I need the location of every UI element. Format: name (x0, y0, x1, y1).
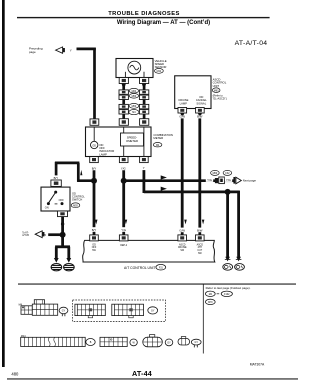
svg-text:LAMP: LAMP (180, 101, 188, 105)
pin name ASCD 4th cut sw (197, 243, 204, 254)
svg-text:Refer to last page (Foldout pa: Refer to last page (Foldout page). (206, 286, 251, 290)
svg-text:CRUISE: CRUISE (178, 247, 187, 249)
svg-text:TROUBLE DIAGNOSES: TROUBLE DIAGNOSES (108, 11, 180, 17)
next page arrow (233, 177, 241, 184)
foldout dashed box (73, 300, 166, 322)
svg-text:B/Y: B/Y (92, 228, 97, 232)
connector id oval ASCD (212, 88, 220, 93)
ground arrowhead right (66, 258, 71, 263)
svg-text:ON: ON (45, 206, 49, 210)
vehicle speed sensor box (116, 59, 153, 78)
svg-text:To AT-: To AT- (22, 231, 29, 234)
sensor terminal 1 (119, 78, 128, 87)
svg-text:B/Y: B/Y (92, 166, 97, 170)
wire B/W vertical (198, 118, 201, 235)
meter bottom terminal 2 (119, 157, 128, 163)
section separator rule (18, 284, 296, 285)
svg-text:AT-44: AT-44 (132, 369, 152, 378)
svg-text:F31: F31 (159, 267, 164, 269)
ATCU terminal ASCD cruise (178, 235, 187, 241)
ASCD terminal cruise lamp (178, 108, 187, 116)
branch1 end terminal (225, 257, 231, 262)
speedometer box (121, 133, 144, 146)
svg-text:GY: GY (194, 341, 198, 344)
page left black bar (2, 0, 5, 367)
svg-text:SWITCH: SWITCH (72, 197, 82, 201)
svg-text:ASCD: ASCD (197, 243, 204, 246)
svg-text:OD: OD (92, 243, 96, 246)
svg-text:B/Y: B/Y (54, 176, 59, 180)
wire jog riser (77, 163, 80, 182)
junction dot Y/G (121, 178, 127, 184)
svg-text:M24: M24 (132, 90, 137, 93)
svg-text:OFF: OFF (92, 247, 97, 249)
svg-text:OD: OD (92, 144, 96, 147)
svg-text:“EL-ASCD”.): “EL-ASCD”.) (213, 97, 228, 101)
switch OFF contact (61, 202, 64, 205)
arrow up on riser (80, 170, 82, 175)
arrow down on Y/G wire (125, 220, 128, 225)
connector id ovals row2 (129, 104, 139, 115)
svg-text:OMETER: OMETER (126, 139, 138, 143)
svg-text:M24: M24 (157, 71, 162, 73)
branch2 end terminal (236, 257, 242, 262)
connector id M4 oval (153, 143, 162, 147)
svg-text:METER: METER (153, 136, 163, 140)
arrow down on G/W wire (184, 220, 187, 225)
to AT label (22, 231, 29, 237)
svg-text:OFF: OFF (59, 198, 65, 202)
wire Y/G vertical (122, 170, 125, 235)
ASCD control unit label (213, 78, 227, 88)
wire label G/W bottom (178, 228, 186, 233)
AT control unit box (83, 240, 215, 262)
connector M63 face (143, 335, 163, 347)
connector M4 color oval GY (59, 307, 68, 316)
meter top terminal 2 (119, 119, 128, 126)
wire G/W vertical (181, 118, 184, 235)
wire label Y/G bottom (120, 227, 128, 232)
ATCU terminal DEP-2 (119, 235, 128, 241)
junction dot bus2 (225, 189, 231, 195)
svg-text:M63: M63 (214, 89, 219, 92)
refer to EL-ASCD note (213, 94, 228, 101)
note dash (217, 293, 220, 295)
connector color oval B2 (165, 339, 173, 346)
svg-text:M60: M60 (132, 105, 137, 108)
meter inner wire speedo out (123, 146, 125, 157)
OD OFF indicator lamp (91, 141, 98, 148)
ATCU terminal OD OFF SW (90, 235, 99, 241)
svg-text:Y: Y (143, 166, 145, 170)
connector id M24 oval (155, 69, 164, 74)
pin name ASCD cruise sw (178, 243, 187, 252)
wire sensor left (122, 84, 125, 120)
svg-text:B/W: B/W (197, 115, 203, 119)
wire to AT arrow (48, 233, 62, 236)
connector color oval W (148, 307, 158, 314)
inline connector row1 right (139, 90, 148, 100)
ATCU terminal ASCD 4th cut (196, 235, 205, 241)
footer rule (7, 378, 298, 379)
inline connector on bus1 (215, 177, 225, 184)
junction dot B/Y (91, 178, 97, 184)
arrow down on B/Y wire (95, 220, 98, 225)
meter bottom terminal 3 (140, 157, 149, 163)
cruise lamp label (178, 98, 188, 105)
connector M24 strip face (21, 337, 86, 346)
OD control switch label (72, 191, 85, 201)
svg-text:GY: GY (167, 342, 171, 345)
switch bottom terminal (58, 211, 68, 217)
svg-text:M60: M60 (132, 95, 137, 98)
ground arrowhead left (54, 258, 59, 263)
meter top terminal 1 (90, 119, 99, 125)
connector color oval W2 (130, 339, 137, 346)
arrow down on B/W wire (202, 220, 205, 225)
switch ON contact (47, 202, 50, 205)
svg-text:B/W: B/W (197, 228, 203, 232)
inline connector row2 right (139, 104, 148, 114)
wire label Y/G left of connector (206, 177, 213, 182)
svg-text:GY: GY (151, 310, 155, 313)
wire jog horizontal low (77, 179, 94, 182)
sensor lead right (143, 72, 145, 78)
note oval M4 (205, 291, 215, 296)
connector id F31 oval (156, 264, 166, 270)
connector id M55 oval (71, 203, 80, 208)
note oval F102 (221, 291, 232, 296)
svg-text:UNIT: UNIT (213, 84, 220, 88)
svg-text:SIGNAL: SIGNAL (196, 101, 206, 105)
svg-text:Next page: Next page (243, 179, 257, 183)
wire jog horizontal top (55, 162, 79, 165)
svg-text:G/W: G/W (179, 115, 185, 119)
ground body left (51, 264, 62, 271)
branch2 connector oval (235, 264, 245, 271)
svg-text:Wiring Diagram — AT — (Cont’d): Wiring Diagram — AT — (Cont’d) (117, 20, 210, 26)
svg-text:F102: F102 (224, 294, 230, 296)
connector color oval B (86, 339, 95, 346)
inline connector row2 left (119, 104, 128, 114)
switch dash mark (55, 203, 58, 205)
combination meter label (153, 133, 173, 140)
wire Y feed horizontal (77, 48, 96, 51)
connector color oval GY2 (191, 339, 201, 347)
preceding page arrow (56, 47, 65, 53)
meter top terminal 3 (140, 119, 149, 126)
svg-text:M55: M55 (73, 204, 78, 207)
wire drop to OD switch (55, 162, 58, 176)
junction dot ground (60, 232, 66, 238)
header rule (17, 17, 270, 18)
wire label B/W bottom (196, 228, 204, 233)
wire B/Y vertical (93, 170, 96, 235)
switch lever (49, 192, 56, 203)
branch1 connector oval (223, 264, 233, 271)
note box border (202, 284, 204, 354)
svg-text:Y/G: Y/G (207, 178, 212, 182)
svg-text:MAT307A: MAT307A (250, 363, 265, 367)
meter bottom terminal 1 (90, 157, 99, 163)
connector M60 face (75, 304, 105, 318)
pin name OD OFF SW (92, 243, 97, 252)
vehicle speed sensor symbol (128, 61, 141, 74)
svg-text:ASCD: ASCD (179, 243, 186, 246)
wire right branch 1 (226, 192, 229, 257)
wire sensor right (143, 84, 146, 120)
switch pivot contact (54, 191, 57, 194)
svg-text:CUT: CUT (197, 250, 202, 252)
wire label B/Y bottom (90, 227, 98, 232)
inline connector row1 left (119, 90, 128, 100)
ground branch left (55, 247, 58, 259)
svg-text:A/T CONTROL UNIT: A/T CONTROL UNIT (124, 266, 155, 270)
ground body right (64, 264, 75, 271)
bus2 horizontal (144, 191, 240, 194)
wire Y feed vertical (93, 48, 96, 120)
svg-text:page: page (29, 50, 36, 54)
connector dot (61, 222, 64, 225)
ground branch right (67, 247, 70, 259)
bus1 tail to arrow (224, 179, 234, 182)
wire right branch 2 (237, 191, 240, 257)
svg-text:Y/G: Y/G (226, 178, 231, 182)
svg-text:M70: M70 (208, 302, 213, 304)
OD control switch box (41, 187, 70, 211)
bus Y/G to next page (124, 179, 216, 182)
meter inner wire right (143, 127, 145, 157)
svg-text:480: 480 (11, 372, 19, 377)
ground split bar (55, 245, 70, 248)
connector M4 face left block (21, 306, 32, 315)
svg-text:Y: Y (70, 49, 72, 53)
svg-text:G/W: G/W (179, 228, 185, 232)
switch top terminal (51, 180, 61, 186)
sensor lead left (124, 72, 126, 78)
to AT arrow (35, 231, 44, 238)
svg-text:A/T-05: A/T-05 (22, 234, 29, 237)
connector M55 face (100, 337, 127, 346)
OD OFF indicator lamp label (99, 143, 114, 156)
arrow right on bus1 (161, 175, 167, 179)
svg-text:M60: M60 (213, 172, 218, 175)
meter inner wire lamp (93, 127, 95, 141)
connector id ovals row1 (129, 88, 138, 98)
svg-text:DEP-2: DEP-2 (120, 245, 127, 247)
connector id ovals bus1 (211, 170, 232, 175)
connector M4 face right block (32, 300, 57, 316)
wire Y vertical from meter (142, 170, 145, 193)
wire switch ground (61, 217, 64, 247)
preceding page label (29, 47, 43, 55)
connector M70 face (112, 304, 144, 318)
arrow right on bus2 (161, 187, 167, 191)
svg-text:AT-A/T-04: AT-A/T-04 (235, 40, 268, 47)
svg-text:LAMP: LAMP (99, 152, 107, 156)
svg-text:4TH: 4TH (198, 247, 203, 249)
meter inner wire speedo in (123, 127, 125, 133)
OD cancel signal label (196, 95, 207, 105)
combination meter box (86, 127, 152, 157)
svg-text:GY: GY (62, 310, 66, 313)
note oval M70 (205, 299, 215, 304)
svg-text:F32: F32 (225, 172, 230, 175)
svg-text:Y/G: Y/G (121, 166, 126, 170)
connector F102 face (178, 337, 190, 345)
vehicle speed sensor label (155, 59, 167, 69)
wire label Y/G right of connector (225, 177, 232, 182)
svg-text:Y/G: Y/G (121, 228, 126, 232)
sensor terminal 2 (140, 78, 149, 87)
ASCD terminal od cancel (196, 108, 205, 116)
ASCD control unit box (175, 76, 211, 109)
